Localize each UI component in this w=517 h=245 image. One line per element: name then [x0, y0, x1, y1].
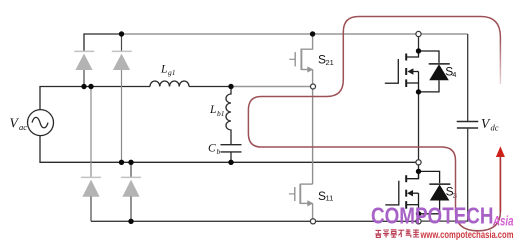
arrow of S11 source (gray) [307, 200, 313, 206]
node S4 drain on DC+ rail [416, 31, 421, 36]
node AC1-D1 [81, 84, 86, 89]
svg-text:11: 11 [326, 193, 334, 202]
svg-text:dc: dc [491, 122, 499, 132]
wire: Cb bottom to AC2 rail [230, 152, 232, 162]
wire: S3 source to DC- open node [418, 214, 420, 219]
body diode of S4 (black) [419, 51, 450, 92]
svg-text:4: 4 [452, 70, 456, 79]
node D2 cathode on DC+ rail [119, 31, 124, 36]
source Vac circle [28, 110, 54, 136]
node DC- at S3 source [416, 219, 421, 224]
arrow of S21 source (gray) [307, 66, 313, 72]
node Cb bottom on AC2 [228, 160, 233, 165]
arrow of S4 body (black, pointing left) [407, 68, 413, 74]
transistor S4 (black) with leads [385, 51, 419, 92]
inductor Lb1 (vertical) [226, 87, 231, 145]
svg-text:V: V [10, 116, 20, 131]
node AC2-D2 [119, 160, 124, 165]
capacitor Cb [221, 145, 242, 152]
diode D4 bridge bottom-right (gray, inactive) [121, 162, 141, 221]
body diode of S3 (black) [419, 171, 451, 213]
svg-text:b: b [217, 147, 221, 156]
wire: totem leg top (open node to S4 drain) [418, 37, 420, 51]
svg-text:21: 21 [326, 58, 334, 67]
red arrow shaft [499, 156, 501, 212]
wire: Vdc branch right side down to cap [467, 34, 469, 121]
svg-text:Asia: Asia [492, 213, 514, 228]
transistor S3 (black) with leads [385, 171, 418, 213]
node S4 source [416, 89, 421, 94]
node switch point S21/S11 [311, 84, 316, 89]
svg-text:ac: ac [19, 122, 27, 132]
node D4 anode on DC- rail [128, 219, 133, 224]
wire: AC1 rail from Vac top to Lg1 [40, 87, 150, 110]
wire: top DC+ rail (bridge part, dark) [84, 34, 122, 51]
wire: totem leg (AC2 node down to S3 drain) [418, 165, 420, 179]
svg-text:COMPOTECH: COMPOTECH [371, 202, 494, 228]
capacitor Vdc [457, 122, 479, 129]
inductor Lg1 [150, 81, 189, 87]
diode D1 bridge top-left (gray, inactive) [74, 51, 94, 86]
svg-text:L: L [209, 104, 216, 116]
arrow of S3 body (black, pointing left) [407, 190, 413, 196]
node AC2 at totem leg [416, 160, 421, 165]
wire: top DC+ rail (gray part to output corner) [122, 33, 468, 35]
node AC1-D3 [88, 84, 93, 89]
node S4 drain [416, 48, 421, 53]
diode D2 bridge top-right (gray, inactive) [112, 34, 132, 162]
node S3 drain [416, 169, 421, 174]
wire: DC- bottom rail [91, 220, 416, 222]
svg-text:b1: b1 [217, 109, 225, 118]
red direction arrow head (up) [496, 146, 505, 157]
svg-text:V: V [481, 116, 491, 131]
wire: Lg1 to Lb1 node [189, 86, 231, 88]
node AC2-D4 [128, 160, 133, 165]
diode D3 bridge bottom-left (gray, inactive) [81, 87, 101, 222]
wire: AC1 rail gray part to S21 source node [231, 86, 310, 88]
svg-text:g1: g1 [168, 68, 176, 77]
node S11 source on DC- rail [310, 219, 315, 224]
node Lb1 top [228, 84, 233, 89]
watermark chinese characters (vector strokes) [375, 230, 419, 238]
sine symbol inside Vac [32, 117, 48, 128]
open terminal nodes [310, 31, 421, 224]
node S3 source [416, 211, 421, 216]
node S21 drain on DC+ rail [310, 31, 315, 36]
wire: Vdc bottom lead down and left to S3 source node [421, 129, 468, 222]
svg-text:C: C [208, 143, 216, 155]
transistor S21 (gray, inactive) [289, 34, 312, 84]
wire: red current loop path [248, 17, 500, 231]
svg-text:www.compotechasia.com: www.compotechasia.com [420, 230, 514, 241]
transistor S11 (gray, inactive) [289, 184, 313, 219]
wire: totem leg middle (S4 source down to AC2 node) [418, 92, 420, 160]
svg-text:L: L [160, 64, 167, 76]
wire: switch-node vertical (gray) from S21 source node down to S11 drain [312, 89, 314, 184]
wire: Vac bottom to AC2 rail [40, 136, 416, 163]
